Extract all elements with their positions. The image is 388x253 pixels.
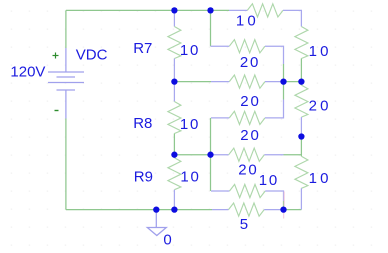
wire row117 up to node B bbox=[283, 82, 285, 100]
resistor R8 bottom pin (wire overlap, green) bbox=[173, 134, 175, 155]
wire column x210 top bbox=[210, 10, 212, 46]
svg-text:10: 10 bbox=[309, 43, 332, 60]
wire left rail bottom bbox=[65, 119, 67, 210]
wire row154 to right column bbox=[284, 154, 302, 156]
junction dot node F x210 row154 bbox=[207, 152, 213, 158]
resistor 20 row82 right pin bbox=[265, 81, 284, 83]
junction dot top R7 bbox=[171, 7, 177, 13]
resistor 5 right pin bbox=[264, 209, 283, 211]
resistor 20 row46 right pin bbox=[265, 46, 284, 64]
junction dot node E R8 bottom bbox=[171, 152, 177, 158]
ground triangle bbox=[147, 228, 166, 236]
junction dot R9 bottom bbox=[171, 206, 177, 212]
net highlight artifact pink lower bbox=[283, 212, 285, 219]
junction dot bottom right bbox=[280, 206, 286, 212]
svg-text:VDC: VDC bbox=[76, 46, 108, 63]
svg-text:10: 10 bbox=[180, 116, 200, 133]
resistor R8 top pin bbox=[173, 82, 175, 102]
resistor R7 zigzag bbox=[168, 27, 181, 59]
wire node D down bbox=[300, 137, 302, 157]
svg-text:0: 0 bbox=[163, 231, 171, 248]
resistor 20 right-column top stub bbox=[300, 82, 302, 86]
net highlight artifact pink upper bbox=[283, 192, 285, 207]
junction dot node C x301 bbox=[298, 78, 304, 84]
junction dot ground node bbox=[153, 206, 159, 212]
resistor 20 row117 zigzag bbox=[229, 111, 265, 124]
svg-text:120V: 120V bbox=[10, 63, 45, 80]
svg-text:20: 20 bbox=[240, 127, 260, 144]
resistor R7 bottom pin bbox=[173, 59, 175, 82]
battery minus sign bbox=[55, 110, 59, 112]
resistor R9 top stub bbox=[173, 155, 175, 158]
wire bottom rail bbox=[66, 209, 212, 211]
ground stem bbox=[155, 210, 157, 228]
resistor 20 row117 left pin bbox=[211, 117, 229, 119]
resistor R8 zigzag bbox=[168, 102, 181, 134]
wire row46 to node B bbox=[283, 64, 285, 82]
svg-text:R8: R8 bbox=[133, 115, 152, 132]
svg-text:20: 20 bbox=[240, 93, 260, 110]
svg-text:5: 5 bbox=[240, 216, 248, 233]
resistor 20 row82 zigzag bbox=[229, 75, 265, 88]
resistor 20 right-column zigzag bbox=[295, 85, 308, 117]
wire row190 pin down to bottom node bbox=[283, 201, 285, 210]
svg-text:10: 10 bbox=[236, 12, 259, 29]
svg-text:10: 10 bbox=[309, 170, 332, 187]
resistor 10 bottom-right zigzag bbox=[295, 156, 308, 188]
resistor 5 zigzag bbox=[229, 203, 265, 216]
svg-text:10: 10 bbox=[180, 169, 200, 186]
resistor 10 right-column zigzag bbox=[295, 27, 308, 59]
resistor 20 row82 left pin bbox=[211, 81, 229, 83]
svg-text:R9: R9 bbox=[134, 168, 153, 185]
svg-text:10: 10 bbox=[259, 172, 279, 189]
wire row82 from R7 node bbox=[174, 81, 211, 83]
junction dot node D right column bbox=[298, 133, 304, 139]
battery V1 top pin bbox=[65, 48, 67, 72]
resistor 10 row190 left pin bbox=[211, 190, 230, 192]
junction dot top x210 bbox=[207, 7, 213, 13]
svg-text:20: 20 bbox=[240, 54, 260, 71]
resistor 10 top zigzag bbox=[247, 4, 283, 17]
junction dot node A R7 bottom bbox=[171, 78, 177, 84]
resistor 20 row46 left pin bbox=[211, 45, 230, 47]
wire top rail bbox=[66, 9, 229, 11]
resistor R9 zigzag bbox=[168, 158, 181, 190]
resistor 10 row190 right pin bbox=[265, 191, 283, 201]
battery V1 bottom pin bbox=[65, 90, 67, 119]
resistor 20 row154 left pin bbox=[211, 154, 229, 156]
resistor 10 bottom-right bottom pin bbox=[300, 188, 302, 209]
svg-text:20: 20 bbox=[309, 98, 332, 115]
resistor 10 right-column bottom pin (wire overlap, green) bbox=[300, 59, 302, 82]
wire row82 node B to node C bbox=[284, 81, 302, 83]
svg-text:R7: R7 bbox=[133, 40, 152, 57]
resistor 20 row117 right pin bbox=[265, 100, 284, 118]
wire bottom right to right column bbox=[284, 209, 302, 211]
resistor 5 left pin bbox=[212, 209, 229, 211]
svg-text:10: 10 bbox=[180, 42, 200, 59]
wire row154 from R8 node bbox=[174, 154, 210, 156]
battery V1 plates bbox=[48, 72, 84, 90]
resistor 20 row154 right pin bbox=[264, 154, 283, 156]
resistor 20 row46 zigzag bbox=[229, 40, 265, 53]
resistor R7 top pin bbox=[173, 10, 175, 26]
resistor 10 top right pin bbox=[283, 10, 301, 26]
wire column x210 middle bbox=[210, 118, 212, 191]
resistor 10 top left pin bbox=[229, 9, 247, 11]
battery plus sign bbox=[53, 53, 59, 59]
resistor R9 bottom pin bbox=[173, 190, 175, 210]
wire left rail top battery plus lead bbox=[65, 10, 67, 48]
resistor 20 right-column bottom pin bbox=[300, 117, 302, 136]
svg-text:20: 20 bbox=[238, 162, 258, 179]
junction dot node B x283 bbox=[280, 78, 286, 84]
resistor 10 row190 zigzag bbox=[230, 184, 266, 197]
resistor 20 row154 zigzag bbox=[229, 148, 265, 161]
